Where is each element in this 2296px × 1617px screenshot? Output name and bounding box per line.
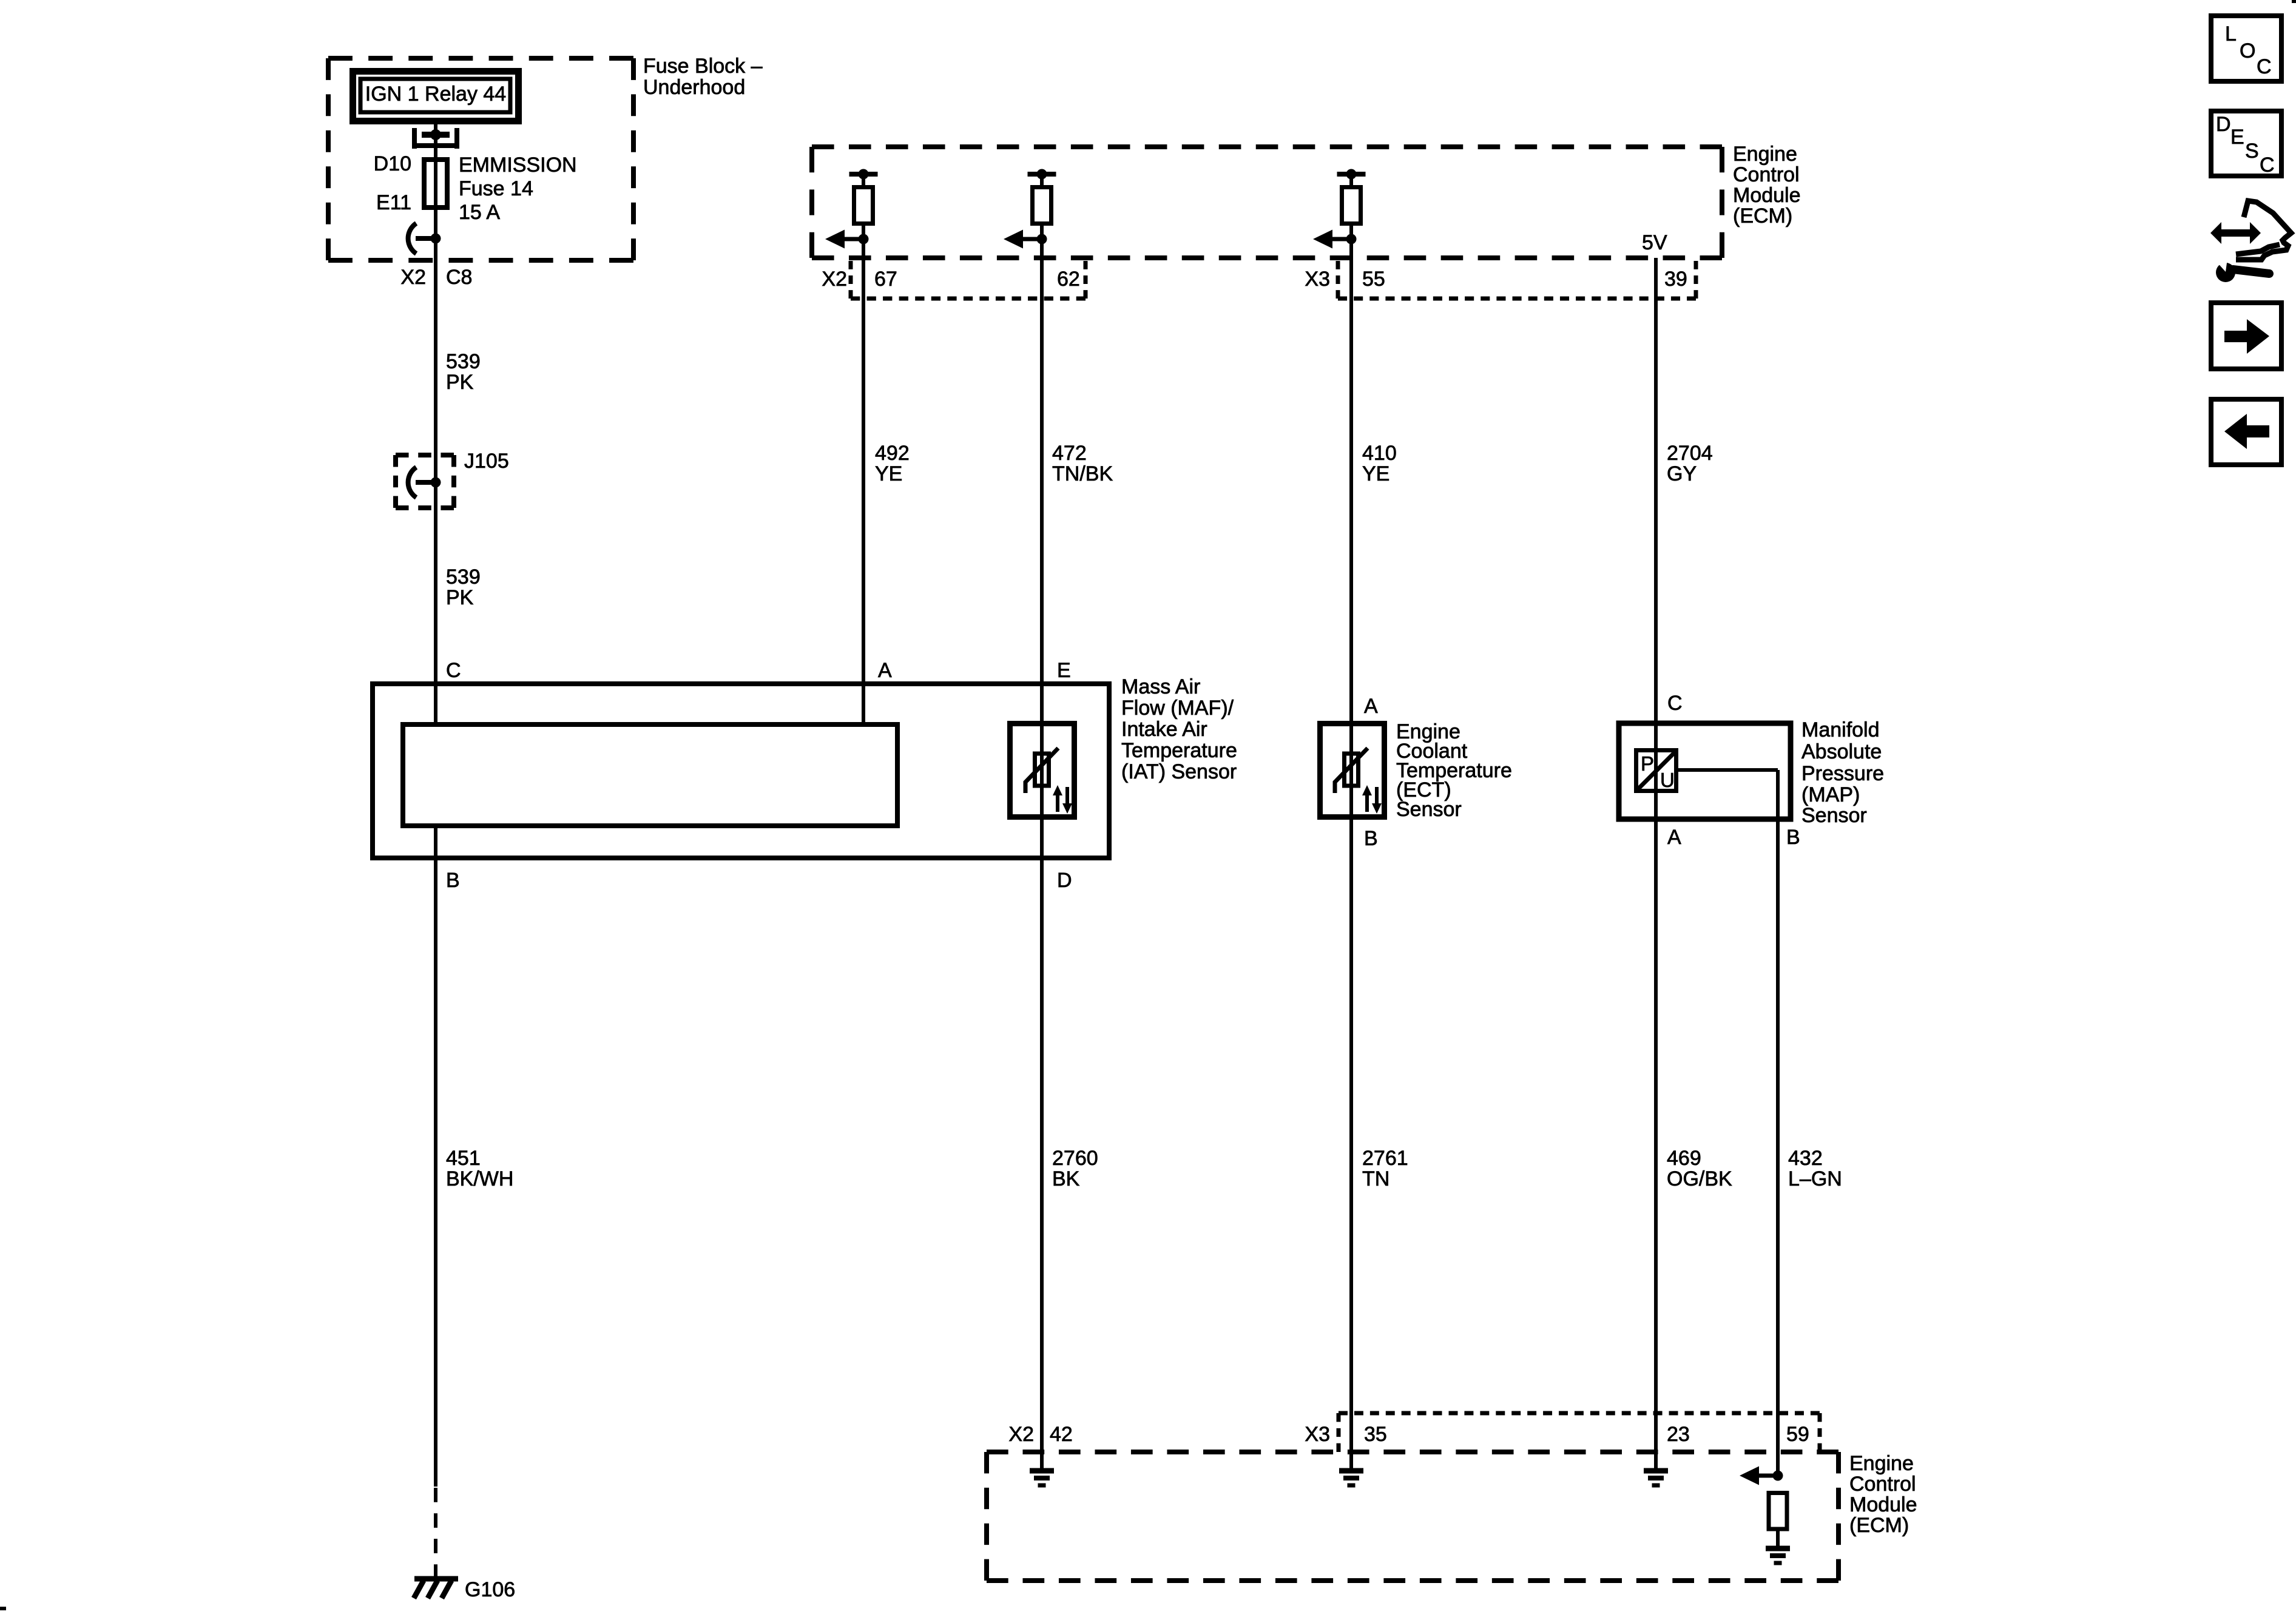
svg-text:Absolute: Absolute (1801, 740, 1882, 763)
svg-text:42: 42 (1050, 1423, 1073, 1446)
svg-text:S: S (2245, 140, 2259, 163)
svg-text:B: B (1786, 826, 1800, 849)
svg-text:539: 539 (446, 350, 481, 373)
svg-text:OG/BK: OG/BK (1667, 1167, 1732, 1190)
svg-text:Control: Control (1849, 1473, 1916, 1496)
svg-text:BK: BK (1052, 1167, 1080, 1190)
svg-text:YE: YE (1362, 462, 1389, 485)
svg-text:410: 410 (1362, 442, 1397, 465)
svg-text:432: 432 (1788, 1147, 1823, 1170)
svg-text:492: 492 (875, 442, 910, 465)
svg-text:(MAP): (MAP) (1801, 783, 1860, 806)
svg-text:X2: X2 (822, 268, 847, 291)
svg-text:G106: G106 (465, 1578, 515, 1601)
svg-text:Pressure: Pressure (1801, 762, 1884, 785)
svg-text:5V: 5V (1642, 231, 1667, 254)
svg-text:67: 67 (874, 268, 897, 291)
svg-text:Intake Air: Intake Air (1121, 718, 1207, 741)
svg-text:TN/BK: TN/BK (1052, 462, 1113, 485)
svg-text:EMMISSION: EMMISSION (459, 154, 577, 177)
svg-text:PK: PK (446, 371, 474, 394)
svg-text:C: C (2257, 55, 2272, 78)
svg-text:(ECM): (ECM) (1733, 204, 1792, 228)
svg-text:D10: D10 (374, 152, 411, 175)
svg-text:Manifold: Manifold (1801, 718, 1880, 741)
svg-text:Underhood: Underhood (643, 76, 745, 99)
svg-text:GY: GY (1667, 462, 1697, 485)
svg-text:L–GN: L–GN (1788, 1167, 1842, 1190)
svg-text:O: O (2240, 39, 2255, 62)
svg-text:U: U (1660, 769, 1675, 791)
svg-text:IGN 1 Relay 44: IGN 1 Relay 44 (365, 83, 506, 106)
svg-text:P: P (1641, 752, 1654, 775)
svg-text:C: C (2260, 154, 2275, 177)
svg-text:BK/WH: BK/WH (446, 1167, 513, 1190)
svg-text:Flow (MAF)/: Flow (MAF)/ (1121, 697, 1234, 720)
svg-text:B: B (446, 869, 460, 892)
svg-text:L: L (2225, 22, 2237, 46)
svg-text:Engine: Engine (1733, 143, 1797, 166)
svg-text:Sensor: Sensor (1396, 798, 1462, 821)
svg-text:C: C (1667, 692, 1683, 715)
svg-text:X3: X3 (1305, 1423, 1330, 1446)
svg-text:A: A (1364, 695, 1378, 718)
svg-text:A: A (878, 659, 892, 682)
svg-text:539: 539 (446, 565, 481, 589)
svg-text:Fuse 14: Fuse 14 (459, 177, 533, 200)
svg-text:PK: PK (446, 586, 474, 609)
svg-text:(ECM): (ECM) (1849, 1514, 1909, 1537)
svg-text:39: 39 (1664, 268, 1687, 291)
svg-text:Fuse Block –: Fuse Block – (643, 55, 763, 78)
svg-text:2704: 2704 (1667, 442, 1713, 465)
svg-text:TN: TN (1362, 1167, 1389, 1190)
svg-text:Mass Air: Mass Air (1121, 675, 1200, 698)
svg-text:59: 59 (1786, 1423, 1809, 1446)
svg-text:X3: X3 (1305, 268, 1330, 291)
svg-text:55: 55 (1362, 268, 1385, 291)
svg-text:C8: C8 (446, 266, 472, 289)
svg-text:A: A (1667, 826, 1681, 849)
svg-text:23: 23 (1667, 1423, 1690, 1446)
svg-text:C: C (446, 659, 461, 682)
svg-text:2760: 2760 (1052, 1147, 1098, 1170)
svg-text:469: 469 (1667, 1147, 1701, 1170)
svg-text:(IAT) Sensor: (IAT) Sensor (1121, 760, 1237, 783)
svg-text:Module: Module (1849, 1493, 1917, 1516)
svg-text:D: D (2216, 113, 2231, 136)
svg-text:D: D (1057, 869, 1072, 892)
svg-text:X2: X2 (400, 266, 426, 289)
svg-text:YE: YE (875, 462, 902, 485)
svg-text:451: 451 (446, 1147, 481, 1170)
svg-text:35: 35 (1364, 1423, 1387, 1446)
svg-text:Sensor: Sensor (1801, 804, 1867, 827)
svg-text:62: 62 (1057, 268, 1080, 291)
svg-text:2761: 2761 (1362, 1147, 1408, 1170)
svg-text:15 A: 15 A (459, 201, 500, 224)
svg-text:Engine: Engine (1849, 1452, 1914, 1475)
svg-text:B: B (1364, 827, 1378, 850)
svg-text:E11: E11 (376, 191, 411, 214)
svg-text:X2: X2 (1008, 1423, 1034, 1446)
svg-text:J105: J105 (464, 450, 509, 473)
svg-text:Control: Control (1733, 163, 1800, 186)
svg-text:Module: Module (1733, 184, 1801, 207)
svg-text:472: 472 (1052, 442, 1087, 465)
svg-text:E: E (2230, 126, 2244, 149)
svg-text:Temperature: Temperature (1121, 739, 1237, 762)
svg-text:E: E (1057, 659, 1071, 682)
